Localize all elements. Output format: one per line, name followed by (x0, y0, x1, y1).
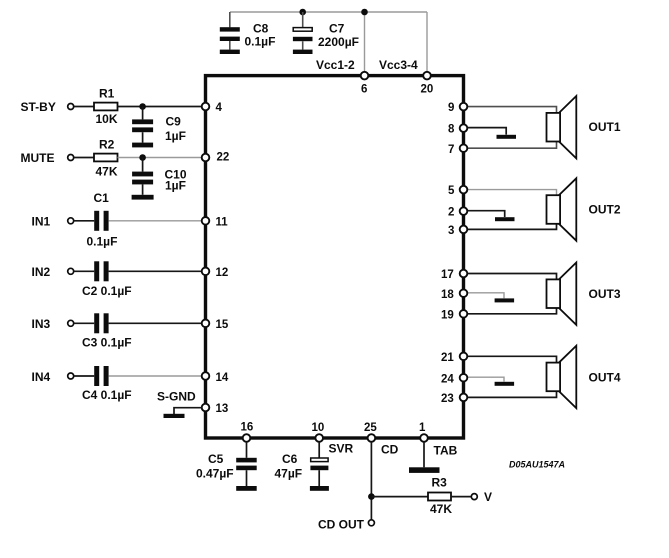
svg-text:17: 17 (441, 269, 454, 281)
wire pin 19 to speaker LS3 (464, 308, 557, 314)
speaker LS4 (547, 346, 577, 408)
pin 18 (460, 289, 468, 297)
wire (371, 496, 428, 498)
pin 17 (460, 270, 468, 278)
svg-text:Vcc1-2: Vcc1-2 (316, 58, 355, 72)
wire (74, 220, 95, 222)
speaker LS3 (547, 263, 577, 325)
wire (74, 375, 95, 377)
svg-text:OUT3: OUT3 (589, 287, 621, 301)
svg-text:MUTE: MUTE (21, 151, 55, 165)
pin 7 (460, 144, 468, 152)
svg-text:23: 23 (441, 393, 454, 405)
svg-text:47µF: 47µF (275, 467, 303, 481)
resistor R1 (94, 103, 118, 111)
svg-text:18: 18 (441, 289, 454, 301)
node V (471, 494, 477, 500)
ground bar pin 2 (495, 217, 515, 221)
pin 5 (460, 186, 468, 194)
svg-text:15: 15 (216, 319, 229, 331)
svg-text:S-GND: S-GND (157, 390, 196, 404)
svg-text:2: 2 (448, 207, 454, 219)
svg-text:IN1: IN1 (32, 215, 51, 229)
ground bar of C9 (132, 143, 153, 148)
svg-text:1: 1 (419, 422, 426, 434)
svg-text:16: 16 (241, 422, 254, 434)
wire to pin 6 (364, 12, 366, 74)
IC U1 body (206, 76, 464, 438)
ground bar of C5 (236, 486, 257, 491)
svg-text:R1: R1 (99, 87, 115, 101)
speaker LS2 (547, 178, 577, 240)
wire (118, 106, 203, 108)
pin 13 (202, 404, 210, 412)
svg-text:C3 0.1µF: C3 0.1µF (82, 335, 132, 349)
svg-text:10K: 10K (96, 112, 118, 126)
svg-text:C2 0.1µF: C2 0.1µF (82, 284, 132, 298)
node junction (139, 103, 146, 110)
resistor R3 (428, 493, 451, 501)
svg-text:12: 12 (216, 267, 229, 279)
svg-text:8: 8 (448, 124, 455, 136)
svg-text:IN4: IN4 (32, 370, 51, 384)
pin 22 (202, 154, 210, 162)
wire (109, 270, 202, 272)
svg-text:24: 24 (441, 373, 454, 385)
svg-text:3: 3 (448, 225, 454, 237)
svg-text:9: 9 (448, 102, 454, 114)
wire (423, 442, 425, 468)
wire top supply rail (230, 11, 427, 13)
svg-text:C5: C5 (208, 452, 224, 466)
ground bar of C8 (220, 50, 240, 54)
pin 8 (460, 124, 468, 132)
svg-text:OUT4: OUT4 (589, 371, 621, 385)
svg-text:OUT1: OUT1 (589, 120, 621, 134)
svg-text:19: 19 (441, 309, 454, 321)
svg-text:6: 6 (361, 83, 367, 95)
node junction at C7 (299, 9, 306, 16)
svg-text:0.1µF: 0.1µF (87, 234, 118, 248)
wire (109, 375, 202, 377)
wire pin 8 to ground (464, 128, 507, 135)
ground bar of C6 (310, 486, 329, 491)
capacitor C2 (94, 261, 108, 281)
wire pin 7 to speaker LS1 (464, 142, 557, 149)
svg-text:OUT2: OUT2 (589, 203, 621, 217)
svg-text:5: 5 (448, 185, 455, 197)
node CD OUT (368, 520, 374, 526)
node junction above pin 6 (361, 9, 368, 16)
pin 6 (361, 72, 369, 80)
pin 10 SVR (315, 434, 323, 442)
svg-text:C9: C9 (166, 115, 182, 129)
pin 15 (202, 320, 210, 328)
svg-text:0.47µF: 0.47µF (196, 467, 234, 481)
capacitor C6 (310, 442, 328, 486)
svg-text:SVR: SVR (329, 442, 354, 456)
node junction (139, 154, 146, 161)
pin 21 (460, 353, 468, 361)
ground bar of C7 (293, 50, 313, 54)
node junction (368, 493, 375, 500)
svg-text:22: 22 (217, 152, 230, 164)
svg-text:CD: CD (381, 443, 399, 457)
speaker LS1 (547, 96, 577, 158)
capacitor C5 (236, 442, 257, 486)
svg-text:2200µF: 2200µF (318, 35, 359, 49)
wire pin 9 to speaker LS1 (464, 107, 557, 113)
capacitor C1 (94, 211, 108, 231)
pin 9 (460, 103, 468, 111)
wire pin 17 to speaker LS3 (464, 274, 557, 280)
svg-text:R2: R2 (99, 138, 115, 152)
svg-text:CD OUT: CD OUT (318, 518, 365, 532)
wire pin 24 to ground (464, 377, 505, 381)
capacitor C9 (132, 107, 153, 143)
svg-text:0.1µF: 0.1µF (245, 34, 276, 48)
capacitor C4 (94, 366, 108, 386)
wire (74, 106, 94, 108)
ground bar of C10 (132, 195, 154, 200)
pin 2 (460, 207, 468, 215)
capacitor C10 (132, 158, 153, 195)
wire (118, 157, 203, 159)
svg-text:TAB: TAB (434, 444, 458, 458)
svg-text:21: 21 (441, 352, 454, 364)
wire pin 18 to ground (464, 293, 505, 298)
svg-text:47K: 47K (430, 502, 452, 516)
ground bar pin 8 (497, 135, 517, 139)
svg-text:4: 4 (216, 102, 223, 114)
pin 20 (423, 72, 431, 80)
pin 4 (202, 103, 210, 111)
svg-text:IN2: IN2 (32, 265, 51, 279)
wire (74, 270, 95, 272)
svg-text:C1: C1 (94, 191, 110, 205)
svg-text:C4 0.1µF: C4 0.1µF (82, 388, 132, 402)
svg-text:11: 11 (216, 217, 229, 229)
wire (109, 322, 202, 324)
svg-text:V: V (484, 490, 492, 504)
capacitor C8 (220, 12, 240, 50)
svg-text:47K: 47K (96, 165, 118, 179)
svg-text:25: 25 (364, 422, 377, 434)
pin 16 (243, 434, 251, 442)
svg-text:Vcc3-4: Vcc3-4 (379, 58, 418, 72)
wire (451, 496, 471, 498)
pin 1 TAB (420, 434, 428, 442)
ground TAB bar (409, 467, 440, 473)
wire (109, 220, 202, 222)
wire CD net (370, 442, 372, 520)
wire (174, 408, 202, 414)
svg-text:1µF: 1µF (165, 178, 186, 192)
ground bar pin 24 (495, 382, 514, 386)
ground bar pin 18 (495, 298, 514, 302)
pin 25 CD (368, 434, 376, 442)
svg-text:13: 13 (216, 403, 229, 415)
svg-text:14: 14 (216, 372, 229, 384)
svg-text:1µF: 1µF (165, 129, 186, 143)
pin 23 (460, 394, 468, 402)
pin 3 (460, 226, 468, 234)
wire pin 3 to speaker LS2 (464, 224, 557, 230)
wire (74, 322, 95, 324)
svg-text:D05AU1547A: D05AU1547A (509, 460, 565, 470)
wire pin 2 to ground (464, 211, 505, 217)
wire pin 21 to speaker LS4 (464, 356, 557, 362)
svg-text:R3: R3 (432, 475, 448, 489)
wire pin 5 to speaker LS2 (464, 190, 557, 196)
wire (74, 157, 94, 159)
capacitor C3 (94, 313, 108, 333)
svg-text:ST-BY: ST-BY (21, 100, 56, 114)
capacitor C7 (293, 12, 313, 50)
pin 11 (202, 217, 210, 225)
svg-text:C8: C8 (253, 22, 269, 36)
wire pin 23 to speaker LS4 (464, 391, 557, 397)
resistor R2 (94, 154, 118, 162)
svg-text:10: 10 (312, 422, 325, 434)
svg-text:C7: C7 (329, 22, 345, 36)
svg-text:20: 20 (421, 83, 434, 95)
wire to pin 20 (426, 12, 428, 74)
svg-text:C6: C6 (282, 452, 298, 466)
pin 24 (460, 374, 468, 382)
pin 14 (202, 372, 210, 380)
ground S-GND bar (164, 414, 185, 418)
svg-text:IN3: IN3 (32, 317, 51, 331)
pin 19 (460, 310, 468, 318)
pin 12 (202, 268, 210, 276)
svg-text:7: 7 (448, 144, 454, 156)
